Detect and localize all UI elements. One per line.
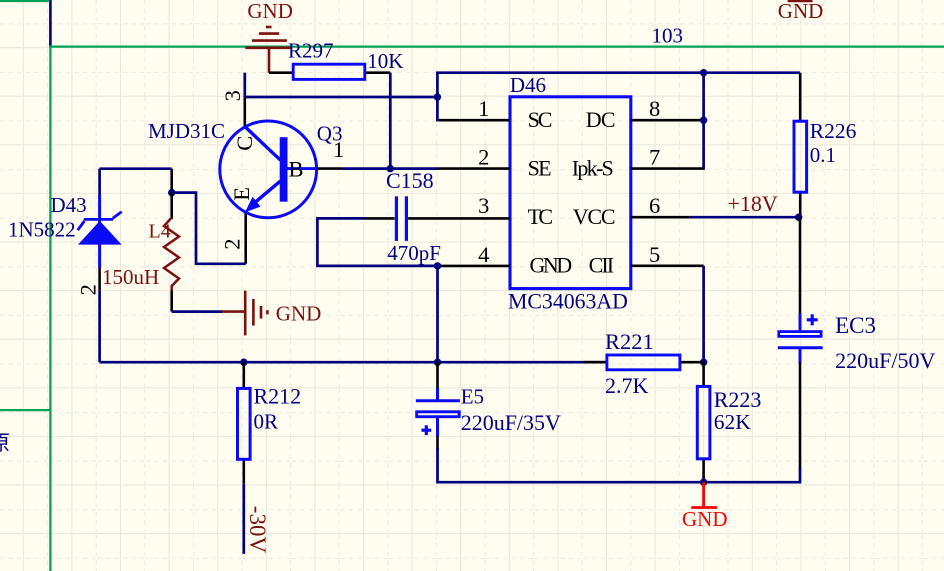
schottky tick right: [113, 212, 122, 218]
svg-text:1: 1: [478, 96, 489, 121]
svg-text:-30V: -30V: [245, 506, 270, 554]
wire R212 to -30V: [242, 484, 245, 554]
power port GND top-right (partial earth bar): [788, 0, 813, 2]
wire collector stub vertical x=244.8: [243, 73, 246, 97]
IC pin 3 line: [408, 217, 510, 220]
base lead blue: [288, 167, 317, 170]
svg-text:SC: SC: [528, 107, 553, 132]
svg-text:GND: GND: [530, 253, 573, 278]
resistor R223: [697, 362, 710, 482]
circle: [220, 121, 317, 218]
junction base node: [387, 165, 394, 172]
svg-text:MJD31C: MJD31C: [148, 119, 225, 143]
wire E5 bottom to bottom rail: [438, 448, 704, 482]
resistor R212: [238, 362, 251, 484]
svg-text:DC: DC: [586, 107, 616, 132]
emitter diagonal: [251, 181, 281, 206]
svg-text:TC: TC: [528, 204, 554, 229]
IC pin 4 line: [438, 265, 511, 268]
svg-text:8: 8: [649, 96, 660, 121]
inductor L4: [164, 193, 179, 312]
svg-text:CII: CII: [589, 253, 615, 278]
svg-text:L4: L4: [149, 221, 171, 243]
base lead black: [317, 167, 342, 170]
wire Q3 base to IC pin2: [342, 167, 438, 170]
anode triangle: [78, 221, 122, 245]
capacitor C158: [365, 196, 406, 241]
IC pin 7 line: [631, 167, 705, 170]
resistor R221: [584, 355, 704, 370]
power port GND mid (earth symbol rotated): [222, 291, 267, 336]
junction SC node: [434, 93, 441, 100]
wire L4 top stub: [170, 169, 173, 193]
svg-text:Ipk-S: Ipk-S: [572, 155, 614, 180]
wire pin8/7 vertical x=703.6: [702, 73, 705, 169]
IC pin 5 line: [631, 264, 704, 267]
junction bottom GND node: [700, 479, 707, 486]
svg-text:R221: R221: [605, 329, 654, 354]
svg-text:4: 4: [478, 242, 489, 267]
IC pin 8 line: [631, 119, 705, 122]
svg-text:220uF/35V: 220uF/35V: [461, 410, 561, 435]
svg-text:原: 原: [0, 431, 10, 455]
junction R221 right node: [700, 359, 707, 366]
svg-text:GND: GND: [247, 0, 293, 23]
svg-text:1N5822: 1N5822: [8, 218, 76, 242]
svg-text:R226: R226: [810, 119, 857, 143]
lead wire navy top: [98, 169, 101, 197]
sheet border green horizontal main: [49, 45, 944, 47]
sheet border green top-left horizontal: [0, 0, 49, 2]
wire R297 right to base x=390.3: [389, 73, 392, 169]
lead blue: [98, 195, 101, 268]
svg-text:MC34063AD: MC34063AD: [508, 290, 628, 314]
svg-text:D43: D43: [51, 193, 87, 217]
collector diagonal: [245, 127, 281, 161]
diode D43: [78, 169, 122, 291]
wire pin5 riser down to R221 node: [702, 266, 705, 362]
svg-text:3: 3: [478, 193, 489, 218]
svg-text:0R: 0R: [254, 410, 279, 434]
wire collector to SC node y=97: [244, 96, 438, 99]
svg-text:R223: R223: [714, 387, 762, 412]
cathode bar: [84, 218, 113, 221]
svg-text:VCC: VCC: [573, 204, 616, 229]
sheet border green vertical main: [49, 47, 51, 571]
IC D46 MC34063AD box: [510, 97, 631, 289]
wire top rail y=72.7: [437, 73, 800, 97]
junction +18V node: [795, 214, 802, 221]
power port GND top (earth symbol): [245, 27, 290, 73]
sheet border green horizontal bottom-left: [0, 409, 50, 411]
svg-text:2: 2: [478, 145, 489, 170]
sheet border navy vertical top-left: [49, 0, 52, 47]
svg-text:220uF/50V: 220uF/50V: [835, 348, 935, 373]
pin 2 emitter line: [244, 211, 247, 263]
svg-text:5: 5: [649, 242, 660, 267]
base bar: [280, 137, 288, 202]
svg-text:2: 2: [220, 239, 245, 250]
wire pin4 node down to rail: [436, 266, 439, 362]
svg-text:7: 7: [649, 145, 660, 170]
IC pin 1 line: [439, 119, 510, 122]
svg-text:103: 103: [652, 24, 684, 48]
wire +18V node down to EC3: [799, 217, 802, 315]
wire top-left loop to D43/L4 y=168.7: [100, 167, 172, 170]
svg-text:E: E: [229, 187, 254, 201]
power port GND bottom (red): [691, 482, 717, 507]
svg-text:3: 3: [220, 90, 245, 101]
schottky tick left: [78, 221, 85, 230]
svg-text:C: C: [232, 136, 257, 151]
junction R212 top node: [240, 359, 247, 366]
wire pin6 to +18V node: [689, 216, 798, 219]
svg-text:+18V: +18V: [728, 191, 778, 216]
wire D43 down to rail: [98, 290, 101, 362]
svg-text:C158: C158: [386, 168, 434, 193]
svg-text:62K: 62K: [714, 410, 752, 434]
svg-text:GND: GND: [276, 302, 322, 326]
svg-text:E5: E5: [461, 385, 484, 409]
svg-text:6: 6: [649, 193, 660, 218]
capacitor EC3: [778, 314, 823, 364]
wire L4 bottom to GND: [172, 310, 222, 313]
resistor R297: [269, 64, 390, 79]
wire mid rail y=362.2: [100, 361, 608, 364]
svg-text:R212: R212: [254, 383, 302, 408]
junction pin8 node: [700, 117, 707, 124]
pin 3 collector line: [244, 97, 247, 127]
svg-text:150uH: 150uH: [102, 265, 159, 289]
wire L4 node to emitter step: [172, 193, 246, 264]
svg-text:2.7K: 2.7K: [605, 373, 649, 398]
wire node SC drop to pin1: [437, 97, 438, 120]
capacitor E5: [416, 362, 460, 450]
svg-text:GND: GND: [682, 507, 728, 531]
svg-text:SE: SE: [528, 155, 552, 180]
svg-text:Q3: Q3: [317, 121, 343, 145]
junction pin4 node: [434, 262, 441, 269]
svg-text:B: B: [289, 157, 304, 182]
svg-text:10K: 10K: [367, 49, 403, 73]
svg-text:D46: D46: [510, 73, 546, 97]
resistor R226: [794, 73, 807, 218]
junction top rail / pin8 riser: [700, 69, 707, 76]
transistor Q3: [220, 97, 342, 264]
lead black below: [98, 268, 101, 290]
IC pin 6 line: [631, 216, 690, 219]
svg-text:470pF: 470pF: [387, 241, 441, 265]
svg-text:GND: GND: [778, 0, 824, 23]
svg-text:2: 2: [76, 284, 101, 295]
emitter arrow: [245, 197, 261, 213]
svg-text:EC3: EC3: [835, 313, 876, 338]
junction E5 top node: [434, 359, 441, 366]
svg-text:0.1: 0.1: [810, 143, 836, 167]
junction L4 top node: [168, 189, 175, 196]
svg-text:R297: R297: [288, 39, 334, 63]
wire EC3 bottom to bottom rail: [799, 362, 802, 470]
IC pin 2 line: [438, 167, 511, 170]
wire C158 left loop: [317, 218, 437, 266]
